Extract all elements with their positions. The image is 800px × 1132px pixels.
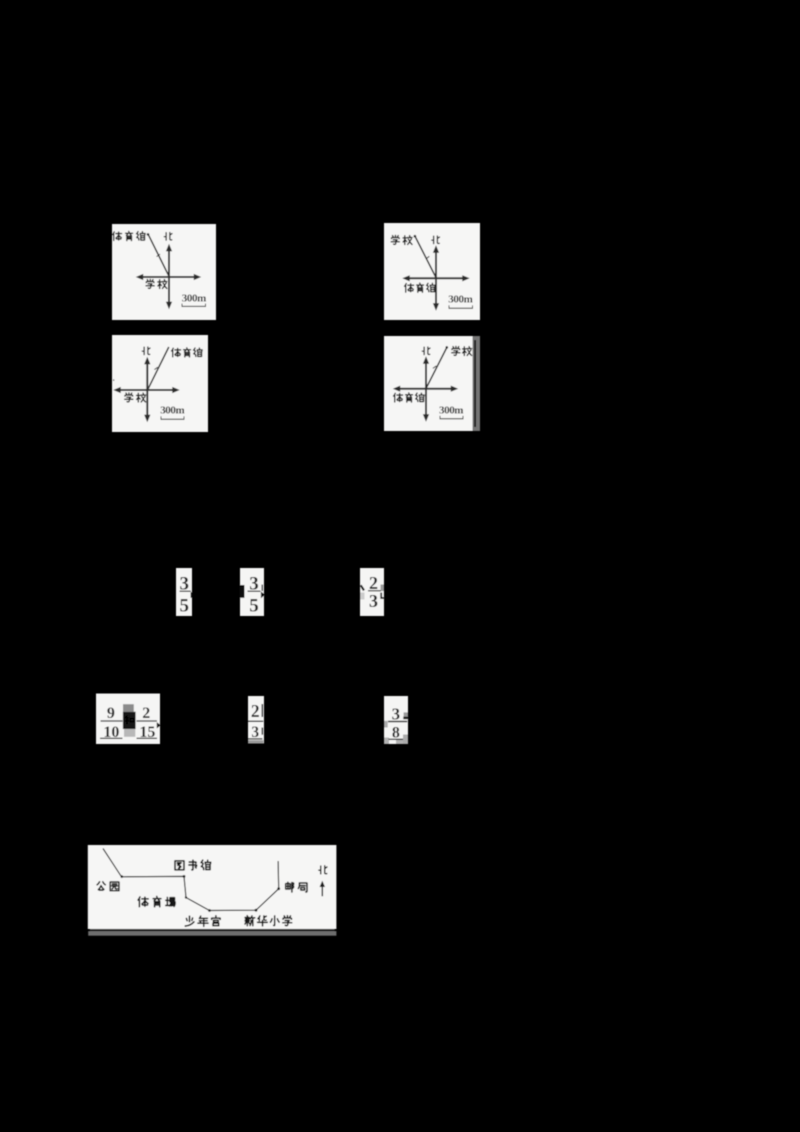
fraction F underline [389,738,404,740]
panel 2 scale bracket [449,305,473,308]
panel 4 east-west axis (horizontal) [393,386,458,392]
diagram image panel 2 (top-right) [384,223,480,320]
panel 2 angle tick [426,256,429,259]
fraction snippet 2/3 (row2) [248,696,264,743]
svg-text:2: 2 [142,705,150,722]
panel 4 angle tick [433,366,436,369]
label 北 (route map) [319,866,327,874]
panel 4 scale bracket [440,416,463,419]
panel 3 scale bracket [161,416,184,419]
svg-text:300m: 300m [160,405,184,417]
fraction A white background [176,568,192,616]
grey patch above 和 [123,704,134,712]
panel 3 label 北 [142,347,150,355]
svg-text:2: 2 [369,573,378,593]
route node dots [121,875,281,912]
fraction F bar [388,721,407,723]
panel 4 bearing line to 学校 [426,346,448,388]
fraction E bottom grey strip [248,740,264,743]
panel 1 east-west axis (horizontal) [136,274,201,280]
panel 1 label 北 [164,233,172,241]
fraction D underline 10 [100,737,123,739]
panel 3 white background [112,335,208,432]
panel 2 north axis (vertical) [433,245,439,310]
panel 4 grey right strip [473,336,481,431]
fraction C right L mark [381,593,384,598]
svg-text:3: 3 [369,591,378,611]
fraction snippet 3/5 (second) with stray ink marks [240,568,266,617]
panel 3 east-west axis (horizontal) [113,387,179,393]
fraction C left comma mark [361,585,364,590]
fraction E right bar lower [262,728,264,735]
fraction F grey specks [384,721,388,728]
fraction F white background [384,696,408,744]
dark 和 character block [123,712,136,729]
CONTENT GROUPS INSERTED BELOW [88,223,480,936]
panel 3 angle tick [154,367,157,369]
route map white background [88,845,337,929]
svg-text:300m: 300m [182,293,206,305]
panel 3 bearing line to 体育馆 [148,347,169,389]
svg-text:5: 5 [180,595,190,616]
label 新华小学 [245,916,292,926]
panel 1 angle tick [157,254,160,257]
panel 4 label 北 [422,347,430,355]
fraction B right stray marks [262,585,263,591]
panel 1 north axis (vertical) [166,244,172,309]
panel 3 label 学校 [125,393,146,402]
svg-text:300m: 300m [439,405,463,417]
fraction snippet 3/5 (first) [176,568,192,616]
route map image panel [88,845,337,936]
panel 1 bearing line to 体育馆 [147,233,169,276]
fraction snippet 3/8 [384,696,409,744]
fraction B white background [240,568,264,616]
fraction E bar [248,720,263,722]
svg-text:300m: 300m [448,294,472,306]
grey patch below 和 [124,729,135,737]
fraction D bar 9/10 [101,720,123,722]
fraction A stray mark [191,592,193,598]
label 少年宫 [185,916,220,927]
panel 3 label 体育馆 [172,348,203,357]
panel 4 north axis (vertical) [423,356,429,421]
panel 1 white background [112,224,216,320]
panel 2 label 北 [432,236,440,244]
panel 2 bearing line to 学校 [414,235,436,278]
svg-text:5: 5 [249,596,259,617]
label 公园 [97,882,119,891]
svg-text:2: 2 [251,701,260,721]
fraction F right dash mark [403,717,408,720]
fraction C bar [368,590,381,592]
fraction D right arrow mark [157,722,161,728]
panel 4 label 体育馆 [394,393,425,402]
fraction snippet 2/3 (row1) with stray ink marks [360,568,384,616]
fraction snippet 9/10 和 2/15 [96,694,161,745]
panel 4 white background [384,336,473,431]
svg-text:3: 3 [392,704,401,723]
fraction E right bar upper [262,704,264,717]
fraction D white background [96,694,160,745]
north arrow (route map) [320,881,325,897]
fraction E underline [248,738,263,740]
route map bottom black rule [90,929,335,931]
panel 2 label 学校 [391,235,412,244]
panel 2 label 体育馆 [405,283,436,292]
panel 4 label 学校 [452,346,472,355]
fraction D bar 2/15 [137,720,158,722]
diagram image panel 3 (bottom-left) [112,335,208,432]
panel 4 black rule in strip [474,340,476,427]
fraction E white background [248,696,264,743]
panel 1 label 学校 [146,279,167,288]
route polyline 公园-图书馆-体育场-少年宫-新华小学-邮局 [103,849,279,911]
fraction B bar [248,590,261,592]
fraction C white background [360,568,384,616]
label 邮局 [286,882,307,892]
panel 3 north axis (vertical) [144,357,150,422]
svg-text:9: 9 [107,705,115,722]
fraction B left clipped character mark [240,585,245,598]
panel 2 white background [384,223,480,320]
panel 2 east-west axis (horizontal) [402,275,469,281]
panel 1 scale bracket [182,304,206,307]
fraction D underline 15 [137,737,158,739]
label 体育场 [138,897,175,907]
diagram image panel 1 (top-left) [112,224,216,320]
fraction A bar [180,590,191,592]
diagram image panel 4 (bottom-right) [384,336,480,431]
panel 3 stray speck [113,379,114,380]
fraction C grey specks [381,585,385,592]
label 图书馆 [175,860,211,870]
panel 1 label 体育馆 [113,231,146,240]
route map bottom grey strip [88,931,336,936]
